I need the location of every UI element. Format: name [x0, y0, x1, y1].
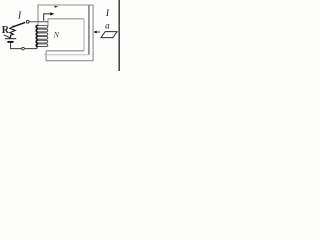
arrowhead of elbow arrow: [50, 12, 54, 15]
svg-text:N: N: [53, 30, 60, 39]
coil turn 2: [36, 29, 48, 32]
page border line at right: [118, 0, 120, 71]
coil turn 6: [36, 44, 48, 47]
coil turn 3: [36, 33, 48, 36]
battery long plate: [5, 38, 16, 40]
core depth: right back edge: [88, 6, 90, 55]
switch fixed contact circle: [26, 20, 29, 23]
wire: outer loop (coil top lead, top wire, right side, bottom, left riser): [38, 5, 93, 61]
coil turn 4: [36, 37, 48, 40]
battery short plate: [7, 41, 13, 43]
switch blade: [13, 22, 25, 26]
wire: switch to coil: [29, 21, 48, 23]
current arrow elbow near coil top: [44, 14, 51, 21]
arrow pointing at core right side: [96, 31, 100, 33]
core window inner rectangle (top, right, bottom edges): [48, 19, 84, 26]
small arrowhead under top wire: [55, 6, 59, 8]
rheostat R zigzag: [10, 27, 15, 39]
svg-text:I: I: [17, 11, 22, 22]
ring a (parallelogram): [101, 32, 117, 38]
coil turn 1: [36, 25, 48, 28]
switch pivot dot: [12, 26, 14, 28]
svg-text:a: a: [105, 20, 110, 30]
coil turn 5: [36, 40, 48, 43]
rheostat arrow diagonal: [4, 35, 10, 38]
svg-text:R: R: [2, 25, 10, 36]
svg-text:I: I: [105, 9, 110, 19]
wire: battery to coil bottom: [11, 43, 37, 49]
core depth: bottom back edge: [44, 54, 89, 56]
terminal circle on bottom wire: [22, 47, 25, 50]
